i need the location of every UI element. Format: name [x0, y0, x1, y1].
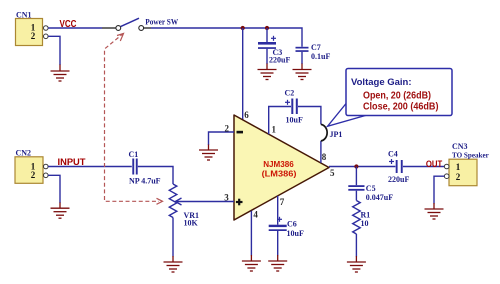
capacitor C6: [269, 217, 304, 256]
ground: [199, 145, 218, 161]
resistor R1: [353, 201, 371, 235]
svg-text:0.1uF: 0.1uF: [311, 52, 330, 61]
wire op-amp pin 4 to ground: [250, 211, 252, 256]
svg-text:220uF: 220uF: [388, 175, 409, 184]
wire input: [48, 166, 132, 168]
svg-text:CN1: CN1: [16, 10, 32, 19]
svg-text:2: 2: [456, 172, 461, 182]
capacitor C4: [388, 150, 409, 185]
wire CN1 pin2 to ground: [48, 36, 60, 65]
ground: [51, 65, 70, 82]
wire op-amp pin 2: [209, 132, 235, 145]
connector CN2: [15, 149, 48, 184]
svg-text:7: 7: [280, 197, 285, 207]
svg-text:JP1: JP1: [330, 130, 343, 139]
svg-text:2: 2: [31, 31, 36, 41]
ground: [51, 203, 70, 219]
svg-text:Power SW: Power SW: [145, 18, 178, 27]
svg-text:C4: C4: [388, 150, 398, 159]
ground: [347, 256, 366, 272]
svg-text:3: 3: [224, 192, 229, 202]
svg-text:C1: C1: [129, 150, 139, 159]
wire VCC rail to switch: [48, 27, 102, 29]
svg-text:2: 2: [225, 123, 230, 133]
wire VR1 to ground: [172, 218, 174, 257]
svg-text:10K: 10K: [184, 219, 199, 228]
ground: [242, 255, 261, 271]
svg-text:5: 5: [330, 168, 335, 178]
capacitor C3: [258, 28, 290, 64]
capacitor C5: [348, 167, 393, 202]
capacitor C1: [129, 150, 161, 185]
callout voltage gain note: [328, 69, 453, 127]
svg-text:(LM386): (LM386): [262, 169, 297, 179]
svg-text:OUT: OUT: [426, 158, 443, 169]
jumper JP1: [321, 124, 342, 140]
svg-text:10uF: 10uF: [286, 116, 303, 125]
op-amp U1 NJM386: [234, 115, 329, 220]
svg-text:TO Speaker: TO Speaker: [452, 151, 489, 160]
svg-text:1: 1: [456, 162, 461, 172]
junction: [265, 26, 269, 30]
dashed coupling line switch to VR1: [105, 33, 163, 204]
wire output net: [329, 166, 444, 168]
capacitor C2 with gain loop wires: [269, 88, 321, 163]
wire op-amp pin 3 with wiper arrow: [175, 198, 234, 205]
svg-text:C5: C5: [366, 184, 376, 193]
wire CN2 pin2 to ground: [48, 175, 60, 203]
switch SW Power SW: [116, 18, 178, 31]
svg-text:NP 4.7uF: NP 4.7uF: [129, 176, 161, 185]
svg-text:4: 4: [253, 209, 258, 219]
connector CN1: [16, 10, 49, 45]
svg-text:1: 1: [272, 125, 277, 135]
svg-text:Voltage Gain:: Voltage Gain:: [351, 77, 412, 88]
wire power rail: [144, 28, 302, 47]
wire op-amp pin 6 supply drop: [242, 28, 244, 121]
ground: [425, 203, 444, 219]
ground: [293, 64, 312, 80]
svg-text:NJM386: NJM386: [263, 159, 294, 169]
wire CN3 pin2 to ground: [434, 176, 444, 203]
connector CN3: [444, 142, 489, 186]
svg-text:220uF: 220uF: [269, 55, 290, 64]
svg-text:6: 6: [244, 110, 249, 120]
svg-text:8: 8: [322, 152, 327, 162]
svg-text:C7: C7: [311, 43, 321, 52]
svg-text:10uF: 10uF: [287, 229, 304, 238]
wire op-amp pin 7: [277, 196, 279, 225]
svg-text:0.047uF: 0.047uF: [366, 193, 393, 202]
ground: [268, 255, 287, 271]
wire R1 to ground: [355, 234, 357, 257]
junction: [354, 164, 358, 168]
ground: [258, 64, 277, 80]
svg-text:C2: C2: [285, 88, 295, 97]
potentiometer VR1: [169, 184, 199, 228]
svg-text:Close, 200 (46dB): Close, 200 (46dB): [363, 101, 439, 112]
svg-text:C6: C6: [287, 220, 297, 229]
wire C1 to VR1: [138, 167, 173, 185]
svg-text:CN2: CN2: [16, 149, 32, 158]
svg-text:Open, 20 (26dB): Open, 20 (26dB): [363, 90, 431, 101]
svg-text:2: 2: [31, 170, 36, 180]
junction: [241, 26, 245, 30]
svg-text:INPUT: INPUT: [58, 156, 86, 167]
ground: [164, 256, 183, 272]
capacitor C7: [296, 43, 331, 64]
svg-text:10: 10: [361, 219, 369, 228]
